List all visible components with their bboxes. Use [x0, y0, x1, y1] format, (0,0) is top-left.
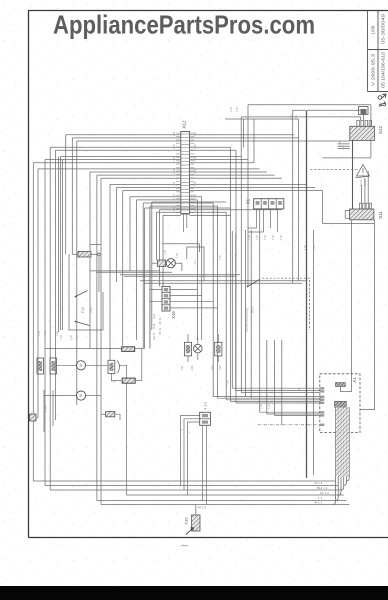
svg-text:4.06: 4.06: [176, 253, 179, 258]
svg-text:4.06: 4.06: [56, 331, 59, 336]
svg-text:4.06: 4.06: [236, 107, 239, 112]
motor M6: [76, 391, 85, 400]
wire inside A1: [340, 387, 352, 392]
wire staircase into A1: [213, 388, 320, 415]
svg-text:4.06: 4.06: [38, 331, 41, 336]
svg-text:19.07: 19.07: [251, 306, 255, 313]
svg-text:1M4: 1M4: [181, 365, 184, 370]
svg-text:4.06: 4.06: [272, 235, 275, 240]
svg-text:05-30/0049: 05-30/0049: [381, 13, 386, 44]
svg-text:49.04: 49.04: [359, 179, 363, 186]
svg-text:4.06: 4.06: [173, 131, 176, 136]
tiny wire labels: [38, 107, 345, 409]
svg-text:4.06: 4.06: [173, 181, 176, 186]
svg-text:4.06: 4.06: [194, 156, 197, 161]
svg-text:4.06: 4.06: [76, 335, 79, 340]
svg-text:4.06: 4.06: [342, 145, 345, 150]
A1 pin stubs: [320, 387, 325, 426]
svg-text:M 1 2: M 1 2: [198, 506, 206, 510]
svg-text:2.05: 2.05: [89, 307, 93, 313]
svg-text:S 1/4: S 1/4: [44, 405, 48, 412]
svg-text:4.06: 4.06: [226, 380, 229, 385]
wire X15 pins: [150, 289, 218, 308]
wire right of A1: [360, 220, 375, 410]
wire down from terminal: [98, 256, 100, 292]
wire bundle vertical: [333, 407, 350, 504]
switch F12: [76, 291, 90, 326]
wire fan left of X12: [33, 135, 181, 505]
bundle hatch band: [336, 407, 349, 477]
svg-text:4.06: 4.06: [256, 235, 259, 240]
terminal circle: [98, 253, 101, 256]
connector X19: [192, 515, 201, 531]
svg-text:F12: F12: [81, 307, 85, 313]
svg-text:4.06: 4.06: [173, 144, 176, 149]
svg-text:46 1 2: 46 1 2: [314, 481, 323, 485]
wire terminal lead: [36, 417, 38, 419]
svg-text:4.06: 4.06: [264, 235, 267, 240]
wire X1 pin links: [248, 228, 264, 232]
wire horizontal y348: [45, 347, 123, 349]
wire M6 leads: [44, 395, 77, 397]
svg-text:V 2999.95.3: V 2999.95.3: [370, 53, 375, 86]
svg-text:4.06: 4.06: [173, 169, 176, 174]
wire S12 to S11 vertical: [352, 140, 354, 209]
svg-text:4.06: 4.06: [230, 107, 233, 112]
svg-text:H1 1 2: H1 1 2: [320, 491, 329, 495]
svg-text:BL 3L: BL 3L: [158, 327, 162, 334]
connector S11: [345, 203, 374, 220]
svg-text:4.06: 4.06: [194, 144, 197, 149]
resistor E22: [122, 378, 135, 383]
fuse box right of M6: [106, 412, 115, 417]
resistor box F-area: [78, 252, 91, 258]
connector box left 2: [50, 358, 57, 374]
labels bundle ends: [314, 481, 329, 505]
connector X1: [254, 199, 284, 209]
wire loop mid: [90, 202, 307, 283]
svg-text:4.06: 4.06: [194, 181, 197, 186]
svg-text:AppliancePartsPros.com: AppliancePartsPros.com: [53, 10, 315, 40]
wire fuse lead: [101, 413, 106, 415]
svg-text:1 3: 1 3: [318, 496, 323, 500]
svg-text:GR 2L: GR 2L: [152, 332, 156, 340]
small box on top wire: [359, 107, 369, 115]
svg-text:4.06: 4.06: [60, 335, 63, 340]
wire X19 up: [195, 505, 197, 516]
svg-text:44 1 2: 44 1 2: [314, 501, 323, 505]
terminal at left frame: [30, 414, 37, 421]
svg-text:4.06: 4.06: [290, 115, 293, 120]
svg-text:M: M: [79, 364, 83, 367]
svg-text:4.06: 4.06: [44, 331, 47, 336]
svg-text:4.06: 4.06: [339, 141, 342, 146]
svg-text:S11: S11: [378, 211, 383, 219]
svg-text:1M4: 1M4: [191, 365, 194, 370]
svg-text:4.06: 4.06: [235, 253, 238, 258]
svg-text:4.06: 4.06: [260, 404, 263, 409]
wire fan right of X12: [190, 135, 350, 216]
svg-text:1M4: 1M4: [219, 365, 222, 370]
vertical bus wires middle: [59, 105, 314, 475]
svg-text:4.06: 4.06: [295, 115, 298, 120]
connector X15: [162, 286, 170, 311]
wire M5 leads: [57, 364, 77, 366]
thick vertical bus x306.5: [306, 111, 308, 478]
svg-text:4.06: 4.06: [70, 335, 73, 340]
svg-text:1M4: 1M4: [211, 365, 214, 370]
projection symbol: [378, 94, 386, 107]
wire S11 surround: [323, 191, 375, 224]
svg-text:05 164/196-610: 05 164/196-610: [381, 51, 386, 88]
wire loop below X12: [187, 247, 204, 281]
wire M1 leads: [152, 262, 158, 264]
module A1 dashed box: [320, 374, 360, 433]
X19 arrow: [186, 528, 194, 535]
relay K3 box: [215, 342, 222, 356]
motor M1: [158, 260, 166, 267]
svg-text:4.06: 4.06: [280, 235, 283, 240]
svg-text:M: M: [79, 394, 83, 397]
connector S12: [350, 121, 375, 141]
svg-text:8.1: 8.1: [193, 260, 197, 264]
wire dash-dot: [258, 424, 320, 426]
svg-text:Gerätesteuerung: Gerätesteuerung: [245, 308, 249, 332]
relay K2 box: [184, 342, 191, 356]
svg-text:S12: S12: [378, 125, 383, 134]
svg-text:X1: X1: [246, 198, 251, 204]
svg-text:4.06: 4.06: [173, 206, 176, 211]
svg-text:X 1.4: X 1.4: [204, 402, 208, 410]
warning symbol: [355, 165, 370, 178]
svg-text:4.06: 4.06: [194, 169, 197, 174]
wire trio stubs: [188, 334, 218, 362]
svg-text:B14 1 2: B14 1 2: [317, 486, 328, 490]
svg-text:4.06: 4.06: [219, 255, 222, 260]
svg-text:M 1L: M 1L: [152, 313, 156, 319]
svg-text:4.06: 4.06: [313, 245, 316, 250]
svg-text:4.06: 4.06: [164, 250, 167, 255]
svg-text:X15: X15: [171, 311, 176, 319]
wire X1 pins: [257, 209, 278, 232]
title block: [368, 11, 388, 92]
fuse box F3: [122, 347, 135, 352]
svg-text:4.06: 4.06: [194, 194, 197, 199]
wire X1.4 feeds: [181, 416, 207, 505]
svg-text:4.06: 4.06: [298, 388, 301, 393]
svg-text:4.06: 4.06: [173, 156, 176, 161]
svg-text:X12: X12: [182, 120, 187, 129]
wire relay loop: [69, 254, 103, 330]
wire X12 bottom pins: [184, 214, 187, 232]
wire box3 to bus: [120, 365, 127, 495]
wire corners to bottom bundle left: [33, 480, 335, 482]
switch S mid-right: [248, 280, 260, 287]
bottom black bar: [0, 586, 388, 600]
svg-text:4.06: 4.06: [248, 235, 251, 240]
motor M5: [76, 361, 85, 370]
connector inside A1: [336, 383, 346, 387]
svg-text:49.02: 49.02: [363, 179, 367, 186]
small mark below frame: [181, 545, 188, 546]
svg-text:BR 1L: BR 1L: [158, 317, 162, 325]
wire E22 leads: [111, 373, 122, 380]
lamp E3: [194, 344, 203, 353]
svg-text:M 3L: M 3L: [152, 323, 156, 329]
svg-text:4.06: 4.06: [194, 206, 197, 211]
svg-text:4.06: 4.06: [194, 131, 197, 136]
wire top right: [225, 105, 371, 203]
bundle connector block: [335, 401, 347, 407]
svg-text:1/08: 1/08: [370, 25, 375, 34]
svg-text:4.06: 4.06: [173, 194, 176, 199]
connector X12: [176, 132, 194, 215]
svg-text:4.06: 4.06: [268, 404, 271, 409]
connector box left 1: [37, 358, 44, 374]
wire dashed to triangle: [310, 169, 358, 171]
connector X1.4: [200, 412, 211, 425]
svg-text:X19: X19: [184, 517, 189, 525]
wire dashed link: [262, 278, 310, 330]
wire v141.8: [141, 349, 143, 381]
connector box left 3: [108, 360, 115, 373]
wire resistor leads: [72, 253, 78, 255]
wire left stubs: [43, 390, 45, 432]
svg-text:4.06: 4.06: [304, 245, 307, 250]
svg-text:A1: A1: [352, 377, 357, 383]
svg-text:Con: Con: [111, 380, 116, 384]
